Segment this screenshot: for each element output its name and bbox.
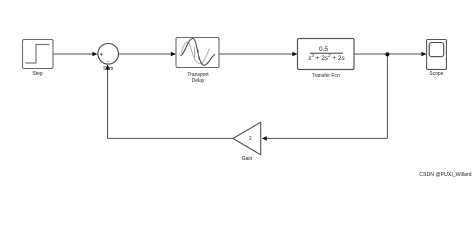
svg-text:s3 + 2s2 + 2s: s3 + 2s2 + 2s [308,53,345,62]
svg-text:Scope: Scope [429,71,443,77]
svg-text:Step: Step [32,71,43,77]
svg-text:Transfer Fcn: Transfer Fcn [312,73,340,79]
svg-text:2: 2 [249,136,252,142]
svg-text:CSDN @PUXI_Willard: CSDN @PUXI_Willard [419,172,471,178]
svg-text:Gain: Gain [242,156,253,162]
svg-text:0.5: 0.5 [319,46,328,53]
svg-text:Delay: Delay [192,78,205,84]
